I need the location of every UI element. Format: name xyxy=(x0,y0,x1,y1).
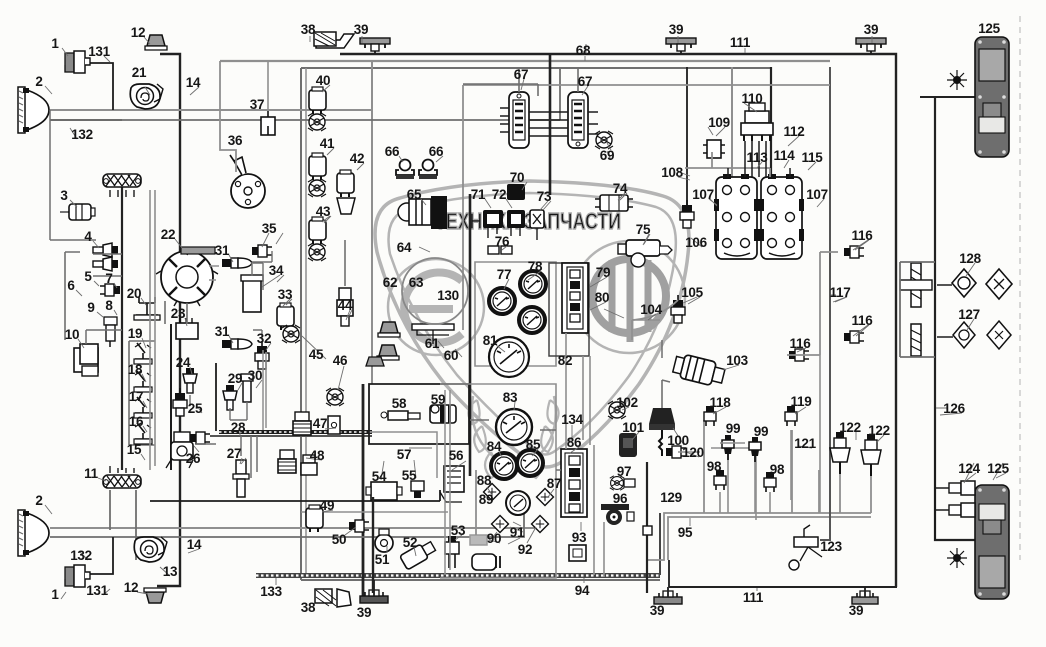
svg-text:66: 66 xyxy=(429,144,444,159)
plug 127 b xyxy=(987,321,1011,349)
svg-text:54: 54 xyxy=(372,469,387,484)
svg-text:72: 72 xyxy=(492,187,506,202)
wire 34 35 links xyxy=(252,251,272,276)
sensor 106 xyxy=(680,200,694,228)
svg-text:65: 65 xyxy=(407,187,422,202)
svg-text:31: 31 xyxy=(215,243,230,258)
wire 54 box xyxy=(370,432,437,478)
wire cluster lower box xyxy=(440,384,556,578)
svg-text:8: 8 xyxy=(105,298,113,313)
svg-text:53: 53 xyxy=(451,523,466,538)
wire 44 drop xyxy=(344,240,346,286)
wire 126 vertical xyxy=(935,97,975,540)
svg-text:61: 61 xyxy=(425,336,440,351)
svg-text:109: 109 xyxy=(708,115,730,130)
distributor 36 xyxy=(230,155,265,208)
wire 67 links xyxy=(529,112,568,136)
alternator 22 xyxy=(156,247,218,306)
filter 47b xyxy=(293,412,311,435)
wire x687 to sensor 106 xyxy=(686,67,688,218)
svg-text:43: 43 xyxy=(316,204,331,219)
svg-text:71: 71 xyxy=(471,187,486,202)
svg-text:46: 46 xyxy=(333,353,348,368)
breaker 66 b xyxy=(419,160,437,180)
wire 100 drop xyxy=(661,380,663,408)
svg-text:39: 39 xyxy=(354,22,368,37)
svg-text:125: 125 xyxy=(987,461,1009,476)
svg-text:78: 78 xyxy=(528,259,543,274)
relay 54 xyxy=(366,482,402,500)
svg-text:12: 12 xyxy=(124,580,138,595)
sensor 5 xyxy=(93,257,118,271)
wire inner panel verticals xyxy=(445,390,450,575)
wire 111 label leader segment xyxy=(668,560,670,587)
svg-text:125: 125 xyxy=(978,21,1000,36)
wire bottom right box xyxy=(301,511,448,513)
svg-text:111: 111 xyxy=(743,590,764,605)
battery 107 right xyxy=(759,174,804,259)
svg-text:122: 122 xyxy=(839,420,861,435)
svg-text:51: 51 xyxy=(375,552,390,567)
plug 30 xyxy=(241,374,253,402)
connector 124 b xyxy=(949,503,975,517)
gnd 39 bottom left xyxy=(360,590,388,603)
svg-text:12: 12 xyxy=(131,25,145,40)
breaker 66 a xyxy=(396,160,414,180)
svg-text:101: 101 xyxy=(622,420,644,435)
wire 103 link xyxy=(662,340,670,382)
wire 27 link xyxy=(241,436,257,478)
wire 95 drops to sensors xyxy=(792,430,871,513)
svg-text:26: 26 xyxy=(186,451,201,466)
watermark emblem xyxy=(375,181,689,478)
svg-text:131: 131 xyxy=(86,583,108,598)
indicator 43b xyxy=(308,243,326,261)
battery 107 left xyxy=(714,174,759,259)
svg-text:111: 111 xyxy=(730,35,751,50)
label leader ticks xyxy=(45,36,1006,599)
battery pin stubs xyxy=(728,141,790,177)
connector 124 block mid xyxy=(911,324,921,356)
wire 26 link xyxy=(196,443,216,445)
wire x732 battery relay feed xyxy=(731,67,733,177)
wire ignition feed x647 xyxy=(646,462,648,593)
bulb 31 top xyxy=(222,258,252,268)
alternator output links xyxy=(209,266,219,280)
svg-text:74: 74 xyxy=(613,181,628,196)
sensor 44 xyxy=(337,288,353,326)
motor 96 xyxy=(601,504,634,525)
box 93 xyxy=(569,545,586,561)
svg-text:66: 66 xyxy=(385,144,400,159)
item 56 xyxy=(440,466,464,502)
svg-text:39: 39 xyxy=(864,22,878,37)
svg-text:131: 131 xyxy=(88,44,110,59)
svg-text:41: 41 xyxy=(320,136,335,151)
svg-text:49: 49 xyxy=(320,498,334,513)
wire x216 xyxy=(215,363,217,431)
wire panel column links xyxy=(566,333,604,577)
connector on x647 xyxy=(643,526,652,535)
wire 118 119 branch xyxy=(703,420,705,513)
fuse 76 xyxy=(488,246,512,254)
switch 37 xyxy=(261,111,275,135)
svg-text:14: 14 xyxy=(186,75,201,90)
gauge 78 xyxy=(520,271,546,297)
svg-text:80: 80 xyxy=(595,290,609,305)
svg-text:116: 116 xyxy=(790,336,812,351)
regulator 23 xyxy=(176,318,198,339)
svg-text:40: 40 xyxy=(316,73,330,88)
horn 21 xyxy=(130,84,163,109)
washer pump 52 xyxy=(400,539,437,570)
svg-text:82: 82 xyxy=(558,353,572,368)
gnd 39 bottom mid xyxy=(654,591,682,604)
svg-text:28: 28 xyxy=(231,420,246,435)
wire 104 run xyxy=(632,300,678,320)
filter 48b xyxy=(301,455,317,475)
wire box bottom edge xyxy=(301,579,660,581)
plug 128 b xyxy=(953,322,975,348)
wire 22 to 11 links xyxy=(165,301,187,324)
svg-text:85: 85 xyxy=(526,437,541,452)
wire 94 bottom trunk xyxy=(256,573,660,578)
wire 132 top run xyxy=(50,68,560,120)
relay 55 xyxy=(411,481,424,498)
module 73 xyxy=(530,210,544,228)
svg-text:89: 89 xyxy=(479,492,493,507)
fog lamp 38 bottom xyxy=(315,589,351,607)
spark 99 b xyxy=(749,437,761,462)
svg-text:36: 36 xyxy=(228,133,243,148)
relay 110 xyxy=(741,103,773,141)
box 10 xyxy=(74,344,98,376)
wire x771 battery feed xyxy=(770,67,772,175)
connector 1 top xyxy=(65,51,90,73)
svg-text:1: 1 xyxy=(51,36,59,51)
indicator 40b xyxy=(308,113,326,131)
wire switch column feeds xyxy=(150,190,155,470)
svg-text:91: 91 xyxy=(510,525,525,540)
wire 28 trunk xyxy=(219,430,372,434)
svg-text:44: 44 xyxy=(338,298,353,313)
wire 124 links xyxy=(935,450,949,540)
sensor 105 xyxy=(671,295,685,323)
svg-text:6: 6 xyxy=(67,278,75,293)
connector 50 xyxy=(349,520,369,532)
wire 132 bottom xyxy=(50,501,524,537)
svg-text:134: 134 xyxy=(561,412,583,427)
wire right column verticals xyxy=(263,350,266,430)
svg-text:122: 122 xyxy=(868,423,890,438)
headlight 2 bottom xyxy=(18,510,49,556)
lamp 35 xyxy=(252,245,272,257)
starter 75 xyxy=(618,240,672,267)
wire 108 run xyxy=(685,152,770,177)
wire harness main top run xyxy=(340,54,896,587)
relay 42 xyxy=(337,170,354,197)
svg-text:27: 27 xyxy=(227,446,241,461)
bulb star top xyxy=(947,70,967,90)
svg-text:10: 10 xyxy=(65,327,79,342)
horn 63 xyxy=(377,345,399,360)
svg-text:30: 30 xyxy=(248,368,262,383)
plug 128 xyxy=(952,269,976,297)
sensor 116 c xyxy=(789,349,809,361)
connector 1 bottom xyxy=(65,565,90,587)
headlight 2 top xyxy=(18,87,49,133)
svg-text:47: 47 xyxy=(313,416,327,431)
svg-text:96: 96 xyxy=(613,491,628,506)
wire 14 vertical xyxy=(157,54,180,586)
wire 95 gray run xyxy=(648,513,871,560)
svg-text:99: 99 xyxy=(726,421,740,436)
sensor 4 xyxy=(93,243,118,257)
panel 86 xyxy=(561,449,587,517)
svg-text:99: 99 xyxy=(754,424,768,439)
connector 92 xyxy=(532,516,549,533)
connector 109 xyxy=(703,140,725,158)
marker lamp 12 bottom xyxy=(144,588,166,603)
sensor 8 xyxy=(100,284,120,296)
wire cluster links xyxy=(470,420,561,470)
svg-text:20: 20 xyxy=(127,286,141,301)
svg-text:16: 16 xyxy=(129,414,144,429)
svg-text:68: 68 xyxy=(576,43,591,58)
indicator 45 xyxy=(282,325,300,343)
switch 67 b xyxy=(568,92,588,148)
svg-text:81: 81 xyxy=(483,333,498,348)
svg-text:14: 14 xyxy=(187,537,202,552)
svg-text:24: 24 xyxy=(176,355,191,370)
wire 131 top xyxy=(83,63,113,110)
svg-text:34: 34 xyxy=(269,263,284,278)
module 71 xyxy=(483,210,503,228)
svg-text:25: 25 xyxy=(188,401,203,416)
svg-text:87: 87 xyxy=(547,476,561,491)
wire 111 bottom run xyxy=(669,586,897,588)
horn 63b xyxy=(366,357,384,366)
sensor 9 xyxy=(104,317,117,347)
svg-text:39: 39 xyxy=(357,605,371,620)
sensor 116 b xyxy=(844,331,864,343)
svg-text:88: 88 xyxy=(477,473,492,488)
pedal 130 xyxy=(412,324,454,344)
svg-text:38: 38 xyxy=(301,600,316,615)
wire main cab trunk x363 xyxy=(362,384,365,596)
svg-text:77: 77 xyxy=(497,267,511,282)
svg-text:93: 93 xyxy=(572,530,587,545)
terminal strip 11 bottom xyxy=(103,475,141,488)
svg-text:50: 50 xyxy=(332,532,346,547)
wire 125 top feed xyxy=(920,96,975,98)
svg-text:22: 22 xyxy=(161,227,175,242)
svg-text:128: 128 xyxy=(959,251,981,266)
wire left sensor links xyxy=(50,110,122,276)
svg-text:73: 73 xyxy=(537,189,552,204)
resistor 90 xyxy=(470,535,487,545)
gnd 39 a xyxy=(360,38,390,51)
wire x470 panel edge xyxy=(469,194,472,476)
sensor 27 xyxy=(233,460,249,497)
gauge 84 xyxy=(491,453,517,479)
relay 74 xyxy=(595,195,633,211)
relay 42b xyxy=(337,198,355,214)
svg-text:64: 64 xyxy=(397,240,412,255)
plug 24 xyxy=(183,368,197,393)
wiper motor 59 xyxy=(430,405,456,423)
wire 24 30 links xyxy=(190,395,247,420)
svg-text:2: 2 xyxy=(35,493,42,508)
svg-text:59: 59 xyxy=(431,392,445,407)
wire gauge cluster box xyxy=(369,384,469,444)
gauge 80 xyxy=(519,307,545,333)
wire left trunk x122 xyxy=(121,187,123,470)
wire 117 lower xyxy=(819,355,821,513)
svg-text:98: 98 xyxy=(770,462,785,477)
lock 103 xyxy=(672,353,726,388)
module 72 xyxy=(507,210,525,228)
svg-text:86: 86 xyxy=(567,435,582,450)
wire right low box xyxy=(711,448,756,520)
connector 88 xyxy=(484,484,501,501)
svg-text:23: 23 xyxy=(171,306,186,321)
wire 39 drops top xyxy=(375,44,871,54)
gnd 39 bottom right xyxy=(852,591,878,604)
plug 119 xyxy=(785,406,797,426)
svg-text:94: 94 xyxy=(575,583,590,598)
wire 31 32 links xyxy=(253,263,263,340)
wire headlight bottom runs xyxy=(50,527,536,529)
svg-text:31: 31 xyxy=(215,324,230,339)
svg-text:55: 55 xyxy=(402,468,417,483)
indicator 41b xyxy=(308,179,326,197)
relay 43 xyxy=(309,217,326,244)
wire 117 vertical xyxy=(820,67,830,540)
tail lamp 125 top xyxy=(975,37,1009,157)
gauge 81 xyxy=(489,337,529,377)
switch 19 xyxy=(134,343,152,364)
svg-text:102: 102 xyxy=(616,395,638,410)
svg-text:107: 107 xyxy=(806,187,828,202)
wire top inner run xyxy=(301,67,771,69)
svg-text:104: 104 xyxy=(640,302,662,317)
sensors 122 a xyxy=(830,432,850,474)
sensor 69 xyxy=(595,131,613,149)
svg-text:67: 67 xyxy=(514,67,528,82)
svg-text:69: 69 xyxy=(600,148,614,163)
ignition coil 65 xyxy=(398,196,447,229)
sensor 25 xyxy=(173,388,187,416)
svg-text:39: 39 xyxy=(650,603,664,618)
relay 101 xyxy=(619,433,637,457)
svg-text:92: 92 xyxy=(518,542,532,557)
wire instrument box xyxy=(462,85,464,330)
connector 128 block xyxy=(900,263,932,307)
module 70 xyxy=(507,184,525,200)
bulb star bottom xyxy=(947,548,967,568)
svg-text:76: 76 xyxy=(495,234,510,249)
steering 61 circle xyxy=(402,258,468,324)
sensor 53 xyxy=(445,536,459,568)
svg-text:33: 33 xyxy=(278,287,293,302)
sensor 116 a xyxy=(844,246,864,258)
connector 124 a xyxy=(949,481,975,495)
wire bottom left feeds xyxy=(110,490,136,560)
svg-text:129: 129 xyxy=(660,490,682,505)
svg-text:60: 60 xyxy=(444,348,458,363)
svg-text:19: 19 xyxy=(128,326,142,341)
67 pin stubs xyxy=(500,108,598,134)
svg-text:17: 17 xyxy=(129,389,143,404)
washer 58 xyxy=(381,411,420,420)
svg-text:90: 90 xyxy=(487,531,501,546)
svg-text:127: 127 xyxy=(958,307,980,322)
motor 3 xyxy=(60,204,95,220)
svg-text:115: 115 xyxy=(802,150,824,165)
svg-text:83: 83 xyxy=(503,390,518,405)
motor 91 xyxy=(472,554,500,570)
svg-text:3: 3 xyxy=(60,188,68,203)
wire 67 switch feeds xyxy=(463,68,578,96)
svg-text:130: 130 xyxy=(437,288,459,303)
svg-text:18: 18 xyxy=(128,362,143,377)
wire x373 trunk lower xyxy=(372,497,374,593)
svg-text:62: 62 xyxy=(383,275,397,290)
svg-text:79: 79 xyxy=(596,265,610,280)
right junction box xyxy=(900,262,935,357)
fog lamp 38 top xyxy=(314,32,354,48)
svg-text:116: 116 xyxy=(852,313,874,328)
svg-text:108: 108 xyxy=(661,165,683,180)
sensor 118 xyxy=(704,406,716,426)
wire to horn 13 xyxy=(150,490,440,501)
wire x553 feed xyxy=(549,54,552,195)
plug 29 xyxy=(223,385,237,410)
gauge 77 xyxy=(489,288,515,314)
switch 17 xyxy=(134,397,152,418)
wire 68 top gray run xyxy=(220,60,830,62)
svg-text:45: 45 xyxy=(309,347,324,362)
svg-text:106: 106 xyxy=(685,235,707,250)
svg-text:5: 5 xyxy=(84,269,92,284)
wire 37 drop xyxy=(267,61,269,111)
plug 121 xyxy=(790,430,792,500)
svg-text:52: 52 xyxy=(403,535,417,550)
sender 26 xyxy=(166,432,193,468)
svg-text:123: 123 xyxy=(820,539,842,554)
terminal strip 11 top xyxy=(103,174,141,187)
svg-text:1: 1 xyxy=(51,587,59,602)
wire box left inner xyxy=(305,68,307,575)
grommet 97 xyxy=(610,476,624,490)
horn 13 xyxy=(134,537,167,562)
svg-text:113: 113 xyxy=(747,150,769,165)
svg-text:39: 39 xyxy=(849,603,863,618)
switch 67 a xyxy=(509,92,529,148)
svg-text:116: 116 xyxy=(852,228,874,243)
switch 123 xyxy=(789,525,822,570)
svg-text:67: 67 xyxy=(578,74,592,89)
svg-text:117: 117 xyxy=(830,285,851,300)
svg-text:7: 7 xyxy=(105,271,112,286)
svg-text:56: 56 xyxy=(449,448,464,463)
relay 49 xyxy=(306,505,323,532)
svg-text:39: 39 xyxy=(669,22,683,37)
plug 98 a xyxy=(714,470,726,490)
gnd 39 b xyxy=(666,38,696,51)
wire terminal stubs xyxy=(110,190,134,473)
